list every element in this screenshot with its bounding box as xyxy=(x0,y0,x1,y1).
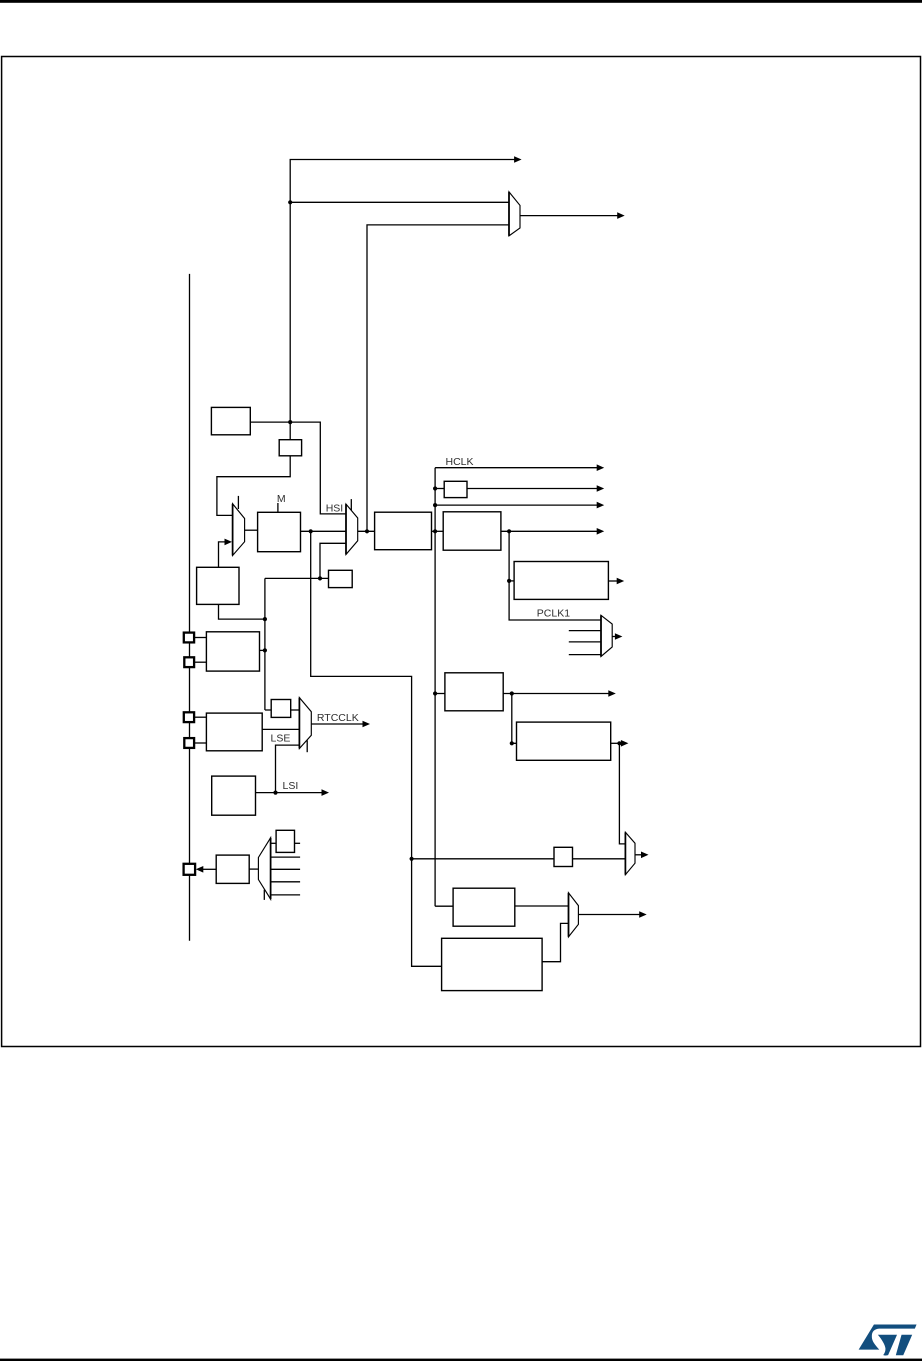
pin OSC32_IN xyxy=(184,712,194,722)
wire LSI branch to mux3 xyxy=(276,745,300,793)
wire boxG branch to mux7 xyxy=(619,743,625,844)
wire M box output to mux2 xyxy=(301,530,346,532)
wire pin OSC_OUT to HSE box xyxy=(194,661,206,663)
wire box1 output to riser xyxy=(250,422,346,514)
box G timer prescaler 2 xyxy=(517,722,611,760)
wire HCLK arrow xyxy=(435,467,597,469)
wire boxE branch into boxG xyxy=(512,694,517,744)
box D timer prescaler xyxy=(514,562,608,600)
wire into boxE xyxy=(435,693,445,695)
wire mux1 select stub xyxy=(237,496,239,509)
mux8 thick edge xyxy=(568,893,570,937)
wire mux9 to SB5 xyxy=(271,842,277,844)
wire mux4 stub 2 xyxy=(569,641,601,643)
pin OSC_IN xyxy=(184,633,194,643)
wire RTCCLK output xyxy=(311,723,363,725)
wire left pin bus vertical xyxy=(189,274,191,941)
header rule xyxy=(0,0,922,3)
wire HSE rail vertical xyxy=(264,578,266,710)
wire riser into divider SB0 xyxy=(289,422,291,440)
pin MCO xyxy=(184,864,196,875)
wire mux8 output xyxy=(578,914,640,916)
wire branch into boxD xyxy=(509,580,514,582)
box B AHB prescaler xyxy=(443,512,501,550)
wire third tap arrow xyxy=(435,504,597,506)
svg-text:PCLK1: PCLK1 xyxy=(537,607,570,619)
wire LSE box output to mux3 xyxy=(262,728,299,730)
box SB2 xyxy=(329,570,353,587)
mux2 SYSCLK xyxy=(346,504,358,554)
wire into boxH xyxy=(435,905,453,907)
wire boxB branch down xyxy=(509,531,601,620)
mux8 bottom xyxy=(569,893,579,937)
wire boxG output xyxy=(611,742,622,744)
wire HSE riser to top xyxy=(290,160,514,423)
box E APB prescaler xyxy=(445,673,503,711)
wire mux9 stub input 2 xyxy=(271,856,301,858)
mux9 thick edge xyxy=(270,838,272,899)
svg-text:LSE: LSE xyxy=(271,733,291,745)
wire mux4 stub 1 xyxy=(569,630,601,632)
svg-text:LSI: LSI xyxy=(283,780,299,792)
wire mux9 stub input 5 xyxy=(271,894,301,896)
arrowheads xyxy=(514,156,522,163)
wire mux7 output xyxy=(635,854,642,856)
box SB1 divider xyxy=(444,481,467,497)
box SB0 divider xyxy=(279,440,301,456)
mux3 RTC source xyxy=(299,698,311,749)
wire mux3 select stub xyxy=(306,740,308,752)
wire M label tick xyxy=(277,503,279,512)
junction dots xyxy=(288,200,292,204)
mux3 thick edge xyxy=(298,698,300,749)
wire boxA to boxB xyxy=(432,530,444,532)
wire CSS bottom to HSE rail xyxy=(219,604,265,619)
svg-text:M: M xyxy=(277,493,286,505)
wire MCO mux output xyxy=(520,215,618,217)
wire CSS to mux1 lower input xyxy=(219,542,226,567)
wire SYSCLK riser to MCO mux input 2 xyxy=(367,225,509,531)
wire mux9 output to MCO box xyxy=(249,868,258,870)
wire LSI output arrow xyxy=(256,792,323,794)
wire pin OSC32_IN to LSE box xyxy=(194,716,206,718)
wire mux9 stub input 3 xyxy=(271,868,301,870)
box MCO xyxy=(216,855,249,883)
wire HCLK main vertical xyxy=(434,468,436,907)
wire boxD output xyxy=(608,580,617,582)
wire mux2 output to boxA xyxy=(358,530,375,532)
wire SB3 to mux7 xyxy=(573,858,626,860)
box H prescaler xyxy=(453,888,515,926)
wire boxB output xyxy=(501,530,598,532)
wire SB5 stub right xyxy=(295,842,301,844)
wire into SB1 xyxy=(435,488,444,490)
wire pin OSC32_OUT to LSE box xyxy=(194,742,206,744)
wire mux9 stub input 4 xyxy=(271,881,301,883)
box SB4 divider xyxy=(271,700,291,718)
wire branch to mux2 lower input xyxy=(320,543,346,578)
svg-text:HSI: HSI xyxy=(326,503,344,515)
ST logo xyxy=(859,1324,917,1355)
wire PLL rail down-right xyxy=(311,531,442,966)
wire mux4 stub 3 xyxy=(569,654,601,656)
wire tap to MCO mux input 1 xyxy=(290,201,509,203)
box A prescaler xyxy=(375,512,432,550)
box CSS xyxy=(197,567,239,604)
box M PLL xyxy=(258,512,301,551)
svg-text:RTCCLK: RTCCLK xyxy=(317,712,359,724)
wire boxE output xyxy=(503,693,609,695)
wire boxH output to mux8 xyxy=(515,905,569,907)
box LSE OSC xyxy=(206,713,262,751)
box SB3 divider xyxy=(554,847,573,866)
mux7 bottom right xyxy=(625,832,635,874)
wire SB1 output xyxy=(467,488,598,490)
svg-text:HCLK: HCLK xyxy=(446,456,474,468)
wire pin OSC_IN to HSE box xyxy=(194,637,206,639)
wire mux2 select stub xyxy=(350,499,352,511)
mux1 thick edge xyxy=(232,504,234,556)
box F big bottom xyxy=(442,938,542,990)
mux MCO top thick edge xyxy=(508,192,510,236)
pin OSC_OUT xyxy=(184,657,194,667)
box LSI RC xyxy=(212,776,256,815)
box B1 top-left xyxy=(211,407,250,434)
wire SB4 output to mux3 xyxy=(291,709,300,711)
wire HSE box output xyxy=(260,649,265,651)
pin OSC32_OUT xyxy=(184,738,194,748)
mux1 PLL source xyxy=(233,504,245,556)
wire mux4 output xyxy=(612,636,616,638)
figure frame xyxy=(2,57,921,1047)
box HSE OSC xyxy=(206,632,259,671)
wire MCO box to pin arrow xyxy=(202,868,216,870)
mux7 thick edge xyxy=(624,832,626,874)
wire branch to SB3 and mux7 xyxy=(412,858,554,860)
mux4 PCLK1 xyxy=(601,615,612,656)
wire mux9 select stub xyxy=(263,890,265,900)
footer rule xyxy=(0,1359,922,1361)
wire boxF output to mux8 xyxy=(542,923,568,961)
wire SB0 to mux1 upper input xyxy=(217,456,290,516)
mux MCO top xyxy=(509,192,520,236)
mux2 thick edge xyxy=(345,504,347,554)
wire HSE rail to SB2 xyxy=(265,577,329,579)
mux9 MCO source reversed xyxy=(258,838,270,899)
wire HSE rail to SB4 xyxy=(265,709,271,711)
mux4 thick edge xyxy=(600,615,602,656)
wire mux1 output to M box xyxy=(245,529,258,531)
box SB5 divider xyxy=(276,830,294,852)
